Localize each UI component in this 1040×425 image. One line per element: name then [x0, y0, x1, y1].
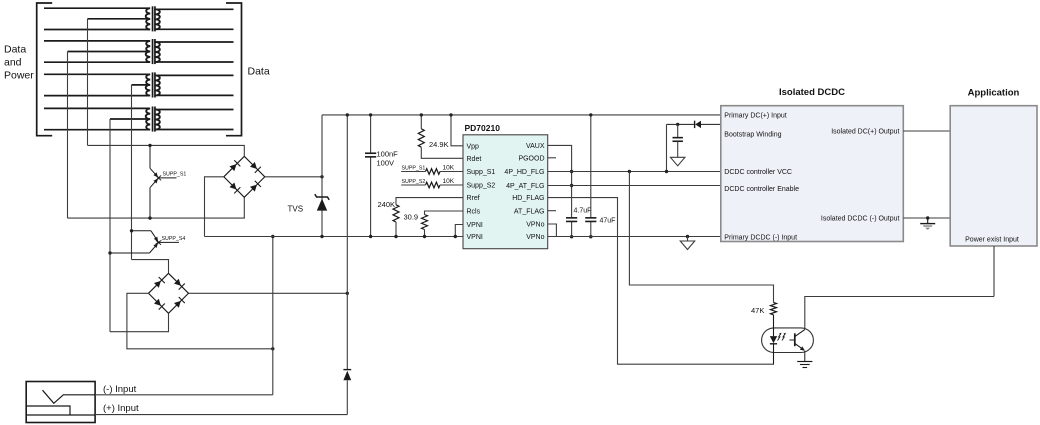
wire 4P_HD_FLG / DCDC controller VCC line	[548, 171, 721, 173]
svg-text:24.9K: 24.9K	[429, 140, 449, 149]
resistor 24.9K	[420, 115, 422, 129]
wire Isolated DCDC (-) Output	[903, 217, 950, 219]
diode D1	[343, 371, 351, 380]
ground emitter	[804, 351, 806, 362]
resistor 240K	[396, 198, 463, 205]
wire collector to Power exist Input	[805, 297, 994, 330]
bridge rectifier BR2	[149, 273, 189, 313]
svg-text:VPNI: VPNI	[467, 222, 483, 229]
dc jack connector J1	[26, 382, 95, 423]
svg-text:Supp_S2: Supp_S2	[467, 183, 496, 190]
svg-text:Data: Data	[4, 44, 26, 56]
transformer T2 core	[152, 39, 154, 64]
transformer T3 primary winding	[44, 73, 149, 75]
svg-text:Vpp: Vpp	[467, 143, 480, 150]
transformer T1 primary winding	[44, 7, 149, 9]
transformer T3 core	[152, 72, 154, 97]
bridge rectifier BR1	[224, 156, 265, 197]
transformer T2 secondary winding	[156, 41, 233, 43]
svg-text:VPNo: VPNo	[526, 222, 544, 229]
svg-text:SUPP_S4: SUPP_S4	[162, 236, 186, 242]
svg-text:10K: 10K	[443, 164, 455, 171]
svg-text:Power exist Input: Power exist Input	[965, 237, 1019, 244]
VPN rail (negative) left	[205, 236, 464, 238]
wire BR2 bottom to T4 tap	[110, 313, 169, 331]
svg-text:30.9: 30.9	[404, 213, 419, 222]
wire VPNo loop and VPN rail right	[548, 224, 557, 236]
svg-text:Supp_S1: Supp_S1	[467, 169, 496, 176]
svg-text:10K: 10K	[443, 178, 455, 185]
optocoupler LED	[773, 315, 775, 336]
svg-text:TVS: TVS	[288, 205, 304, 214]
wire Vpp	[451, 115, 463, 146]
wire BR1 plus output	[265, 176, 322, 178]
VPP top rail	[322, 114, 721, 116]
svg-text:(+) Input: (+) Input	[103, 403, 139, 414]
wire VAUX	[548, 145, 572, 217]
TVS diode	[321, 115, 323, 237]
wire T3 tap to bridge BR2 top	[132, 260, 169, 274]
svg-text:47K: 47K	[751, 306, 764, 315]
svg-text:HD_FLAG: HD_FLAG	[512, 195, 544, 202]
wire BR1 minus output to VPN rail	[205, 177, 224, 237]
wire Isolated DC(+) Output	[903, 130, 950, 132]
bootstrap capacitor	[676, 123, 679, 126]
wire T1 center tap feed	[87, 19, 89, 146]
block Application	[950, 106, 1037, 246]
optocoupler light arrows	[778, 333, 782, 340]
ground isolated output	[926, 216, 929, 219]
wire HD_FLAG to optocoupler LED return	[548, 198, 774, 365]
svg-text:Isolated DCDC: Isolated DCDC	[779, 87, 845, 98]
stub AT_FLAG	[548, 210, 556, 212]
svg-text:240K: 240K	[378, 200, 396, 209]
wire minus input riser	[272, 237, 274, 395]
stub PGOOD	[548, 157, 556, 159]
svg-text:SUPP_S1: SUPP_S1	[163, 172, 187, 178]
wire (+) input riser with diode D1	[346, 115, 348, 369]
capacitor 4.7uF	[566, 217, 577, 219]
svg-text:DCDC controller Enable: DCDC controller Enable	[724, 186, 799, 193]
bootstrap diode D2	[701, 123, 721, 125]
node SUPP_S1 junction	[148, 144, 151, 147]
transformer T4 core	[152, 107, 154, 132]
svg-text:47uF: 47uF	[600, 218, 616, 225]
op-amp U1 PD70210 IC body	[463, 135, 548, 249]
wire plus input	[95, 414, 347, 416]
connector bracket left (RJ45 cable side)	[37, 3, 53, 136]
surge suppressor SUPP_S1	[149, 145, 151, 168]
svg-text:PD70210: PD70210	[465, 123, 501, 133]
connector bracket right	[226, 3, 242, 136]
ground bootstrap	[670, 157, 685, 166]
transformer T4 secondary winding	[156, 109, 233, 111]
transformer T2 primary winding	[44, 40, 149, 42]
svg-text:Isolated DCDC (-) Output: Isolated DCDC (-) Output	[821, 215, 900, 222]
svg-text:Rref: Rref	[467, 195, 480, 202]
svg-text:100V: 100V	[377, 159, 395, 168]
svg-text:SUPP_S2: SUPP_S2	[402, 179, 426, 185]
svg-text:DCDC controller VCC: DCDC controller VCC	[724, 169, 792, 176]
svg-text:VPNI: VPNI	[467, 234, 483, 241]
transformer T3 secondary winding	[156, 74, 233, 76]
block Isolated DCDC	[721, 106, 904, 242]
wire T3 center tap feed	[131, 85, 133, 260]
svg-text:VPNo: VPNo	[526, 234, 544, 241]
wire Power exist Input	[993, 246, 995, 297]
wire minus input	[95, 394, 273, 396]
transformer T4 primary winding	[44, 107, 149, 109]
svg-text:100nF: 100nF	[377, 150, 399, 159]
wire 4P_AT_FLG / DCDC controller Enable line	[548, 185, 721, 187]
surge suppressor SUPP_S4	[130, 229, 133, 232]
wire T4 center tap feed	[109, 119, 111, 332]
svg-text:Primary DCDC (-) Input: Primary DCDC (-) Input	[724, 234, 797, 241]
svg-text:Application: Application	[968, 88, 1020, 99]
capacitor 100nF 100V	[370, 115, 372, 153]
svg-text:Rdet: Rdet	[467, 156, 482, 163]
resistor 47K feed	[628, 170, 631, 173]
svg-text:and: and	[4, 57, 22, 69]
svg-text:PGOOD: PGOOD	[518, 155, 544, 162]
node SUPP_S1 bottom junction	[148, 216, 151, 219]
svg-text:Rcls: Rcls	[467, 209, 481, 216]
wire T2 center tap feed	[67, 52, 69, 219]
wire bootstrap to VCC line	[666, 124, 668, 171]
wire BR2 minus output	[127, 293, 273, 349]
svg-text:4P_HD_FLG: 4P_HD_FLG	[504, 169, 544, 176]
svg-text:Bootstrap Winding: Bootstrap Winding	[724, 132, 781, 139]
transformer T1 secondary winding	[156, 8, 233, 10]
net label SUPP_S2 with resistor 10K	[401, 184, 425, 186]
net label SUPP_S1 with resistor 10K	[401, 171, 425, 173]
svg-text:Data: Data	[248, 66, 270, 78]
optocoupler transistor Q1	[790, 339, 795, 341]
ground VPN rail	[686, 235, 689, 238]
wire VPNI loop	[455, 225, 463, 237]
svg-text:4.7uF: 4.7uF	[574, 208, 592, 215]
wire node to bridge BR1 top	[88, 145, 245, 156]
svg-text:Power: Power	[4, 70, 34, 82]
transformer T1 core	[152, 6, 154, 31]
svg-text:Primary DC(+) Input: Primary DC(+) Input	[724, 112, 786, 119]
wire BR2 plus output to diode node	[189, 292, 348, 294]
svg-text:4P_AT_FLG: 4P_AT_FLG	[506, 183, 544, 190]
svg-text:VAUX: VAUX	[526, 143, 545, 150]
svg-text:(-) Input: (-) Input	[103, 384, 137, 395]
optocoupler U2	[762, 328, 814, 353]
svg-text:Isolated DC(+) Output: Isolated DC(+) Output	[831, 129, 899, 136]
capacitor 47uF	[590, 115, 592, 218]
wire BR1 bottom to T2 tap	[68, 197, 245, 218]
svg-text:AT_FLAG: AT_FLAG	[514, 208, 545, 215]
svg-text:SUPP_S1: SUPP_S1	[402, 165, 426, 171]
resistor 30.9	[425, 211, 464, 215]
